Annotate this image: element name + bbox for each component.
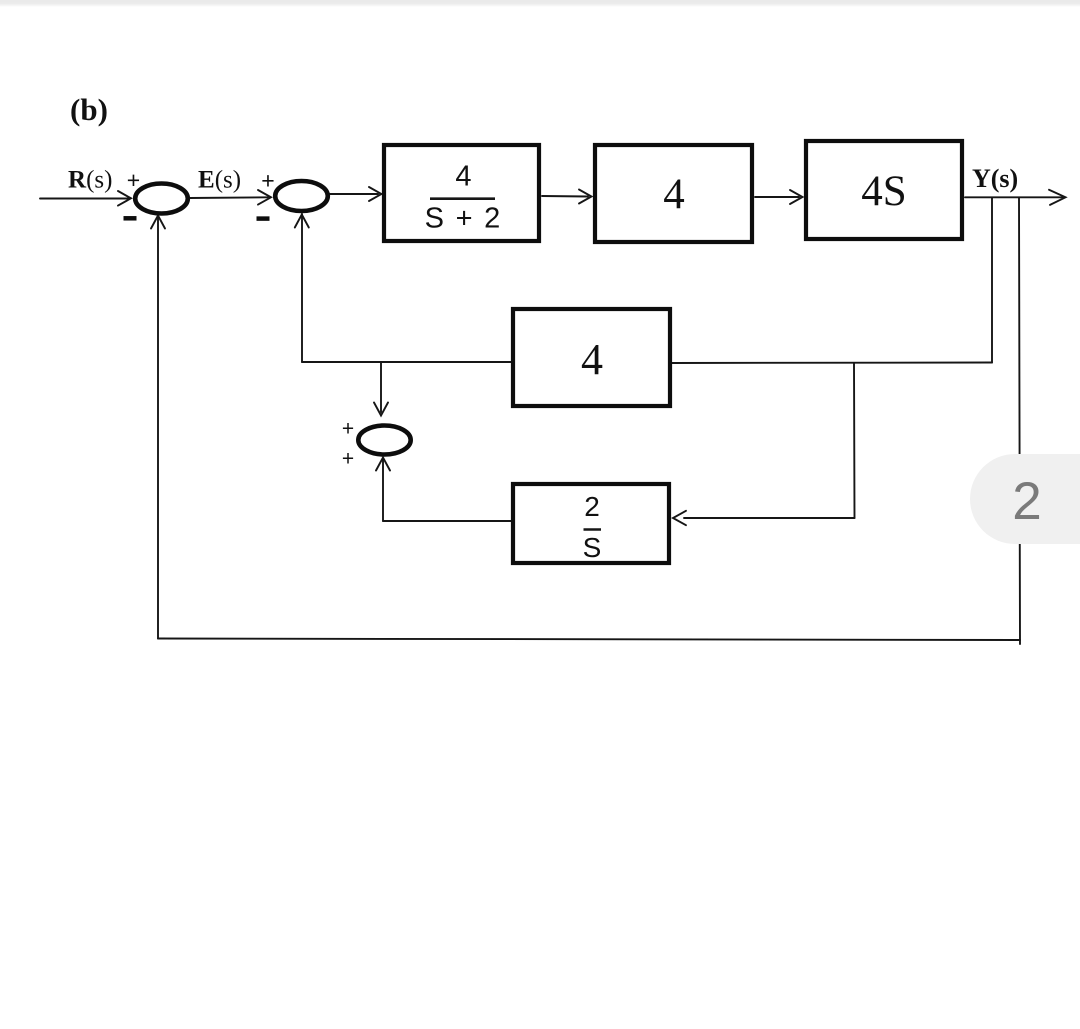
fraction bar of H1 <box>584 528 602 531</box>
summing junction S1 <box>135 184 188 214</box>
summing junction S2 <box>275 181 328 211</box>
sign - at S2 <box>257 216 270 221</box>
svg-text:2: 2 <box>1012 472 1041 531</box>
block G3 gain 4S <box>806 141 962 239</box>
svg-text:4: 4 <box>581 335 603 384</box>
arrowhead output <box>1049 190 1066 205</box>
wire S3 bottom entry vertical <box>382 460 384 521</box>
svg-text:S: S <box>583 532 602 563</box>
svg-text:S + 2: S + 2 <box>425 203 501 235</box>
svg-text:+: + <box>127 167 140 193</box>
svg-text:E(s): E(s) <box>198 167 241 194</box>
arrowhead into block G2 <box>579 190 592 204</box>
svg-text:+: + <box>342 448 354 471</box>
svg-text:Y(s): Y(s) <box>972 164 1018 193</box>
svg-text:4: 4 <box>663 171 685 218</box>
svg-text:4: 4 <box>455 161 471 193</box>
wire S2 to block G1 <box>330 193 378 195</box>
block H2 gain 4 (feedback) <box>513 309 670 406</box>
wire mid feedback right segment <box>672 362 992 365</box>
svg-text:2: 2 <box>584 491 600 522</box>
node Y tap 2 vertical (under page pill) <box>1019 198 1020 644</box>
summing junction S3 <box>358 426 410 455</box>
fraction bar of G1 <box>430 197 495 200</box>
arrowhead up into S2 bottom <box>295 215 309 228</box>
arrowhead up into S1 bottom <box>151 216 165 229</box>
block G1 4/(S+2) <box>384 145 539 241</box>
wire G1 to G2 <box>542 195 588 198</box>
wire G2 to G3 <box>755 196 799 198</box>
wire outer feedback vertical left <box>157 216 159 639</box>
wire S1 to S2 <box>190 196 268 199</box>
wire H1 output segment <box>383 520 512 522</box>
svg-text:(b): (b) <box>70 92 108 127</box>
svg-text:R(s): R(s) <box>68 167 112 194</box>
wire branch down to S3 <box>380 362 382 412</box>
wire S2 drop vertical <box>301 214 303 362</box>
wire output Y(s) <box>965 196 1063 198</box>
wire H1 input vertical <box>853 363 856 518</box>
arrowhead into block G3 <box>790 190 803 204</box>
node Y tap 1 vertical <box>991 198 993 363</box>
block H1 2/S (feedback) <box>513 484 669 563</box>
wire mid feedback left segment <box>302 361 512 363</box>
svg-text:4S: 4S <box>861 168 906 215</box>
arrowhead into summing junction S1 <box>118 191 131 206</box>
wire outer feedback bottom horizontal <box>158 639 1020 641</box>
page number pill 2 <box>970 454 1080 544</box>
arrowhead into block G1 <box>369 187 382 201</box>
block G2 gain 4 <box>595 145 752 242</box>
wire H1 input horizontal <box>684 517 855 519</box>
arrowhead into summing junction S2 <box>258 190 271 205</box>
arrowhead down into S3 top <box>374 403 388 416</box>
sign - at S1 <box>124 216 137 221</box>
wire input R(s) <box>40 198 129 200</box>
svg-text:+: + <box>261 168 274 194</box>
arrowhead up into S3 bottom <box>376 458 390 471</box>
svg-text:+: + <box>342 418 354 441</box>
arrowhead left into H1 right edge <box>673 511 686 525</box>
top toolbar shadow strip <box>0 0 1080 7</box>
